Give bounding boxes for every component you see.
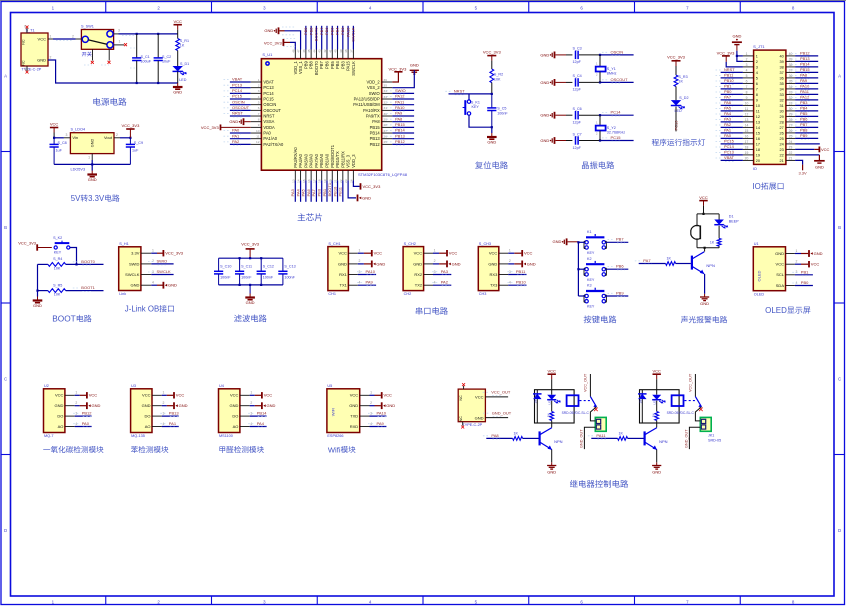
svg-text:AO: AO [145,424,151,429]
module U2 MQ-7 [44,389,65,433]
svg-text:NPN: NPN [554,439,563,444]
wire net PA3 [721,121,743,123]
svg-text:VDDA: VDDA [263,125,275,130]
svg-text:6: 6 [746,79,748,83]
svg-text:13: 13 [745,118,749,122]
svg-text:PA4: PA4 [295,188,300,196]
svg-text:PB9: PB9 [616,290,624,295]
svg-text:DO: DO [57,414,63,419]
svg-text:S_D1: S_D1 [180,62,189,66]
svg-text:4: 4 [358,281,360,285]
svg-text:U3: U3 [131,384,136,388]
svg-text:20: 20 [756,159,760,163]
svg-text:GND: GND [487,140,496,145]
svg-text:10uF: 10uF [162,59,171,63]
svg-text:D1: D1 [729,215,734,219]
wire net OSCOUT [230,109,251,111]
wire net PC15 [230,98,251,100]
wire net PB8 [310,26,312,50]
svg-text:GND_OUT: GND_OUT [492,410,512,415]
svg-text:GND: GND [229,119,238,124]
svg-text:GND: GND [88,177,97,182]
resistor base 1K [513,437,523,441]
junction [599,139,601,141]
power port VCC at U2 pin1 [75,394,80,396]
svg-text:24: 24 [779,142,783,146]
wire net PB9 [795,137,818,139]
svg-text:6: 6 [756,82,758,86]
svg-text:PC15: PC15 [263,97,274,102]
wire net OSCIN [600,54,634,56]
svg-text:35: 35 [779,82,783,86]
wire net PA4 [250,426,267,428]
ground GND [704,294,706,297]
svg-text:PB0: PB0 [724,89,732,94]
svg-text:SWIO: SWIO [395,88,406,93]
svg-text:10K: 10K [494,77,501,81]
svg-text:C: C [4,377,7,382]
svg-text:PB13: PB13 [395,133,406,138]
wire net PB14 [250,415,267,417]
wire net PB6 [795,121,818,123]
wire net PB0 [321,180,323,201]
svg-text:GND: GND [173,90,182,95]
connector S_T1 TYPE-C-2P [21,33,48,66]
caption 主芯片 [298,213,306,221]
svg-text:VCC_3V3: VCC_3V3 [165,251,184,256]
caption 复位电路 [475,161,483,169]
key S_K1 KEY [468,94,470,100]
svg-text:LDO5V3: LDO5V3 [71,167,86,171]
capacitor S_C13 100nF [282,258,284,271]
svg-text:12pF: 12pF [573,88,582,92]
ground GND at U2 pin2 [75,405,80,407]
dashed link [580,400,593,402]
svg-text:SDA: SDA [776,283,785,288]
svg-text:BOOT: BOOT [52,315,76,324]
svg-text:2: 2 [250,401,252,405]
svg-text:PA3: PA3 [724,117,731,122]
transistor NPN relay [643,431,645,445]
wire GND_OUT [584,427,595,449]
junction [599,54,601,56]
svg-text:1: 1 [88,156,90,160]
caption 苯检测模块 [131,446,138,453]
svg-text:AO: AO [58,424,64,429]
svg-text:OSCOUT: OSCOUT [263,108,281,113]
svg-text:OSCOUT: OSCOUT [232,105,250,110]
caption 电源电路 [93,98,100,106]
wire net PB7 [578,241,585,243]
svg-text:VCC_OUT: VCC_OUT [583,373,587,392]
svg-text:VCC: VCC [524,251,533,256]
svg-text:12: 12 [745,112,749,116]
svg-text:VSS_1: VSS_1 [298,60,303,73]
wire net PB9 [578,295,585,297]
capacitor S_C7 12pF [566,140,572,142]
wire contact to terminal [590,407,596,421]
svg-text:PA8: PA8 [372,119,380,124]
svg-text:STM32F103C8T6_LQFP48: STM32F103C8T6_LQFP48 [358,172,408,177]
module U5 ESP8266 [327,389,360,433]
wire net BOOT0 [315,26,317,50]
relay switch contact [694,374,696,397]
svg-text:VCC: VCC [489,251,498,256]
svg-text:PC15: PC15 [724,139,734,144]
svg-text:VCC_3V3: VCC_3V3 [201,125,220,130]
svg-text:VDD_2: VDD_2 [366,80,380,85]
svg-text:PA7: PA7 [643,258,651,263]
svg-text:OSCIN: OSCIN [611,49,624,54]
svg-text:2: 2 [370,401,372,405]
wire net PB6 [326,26,328,50]
svg-text:LED: LED [653,398,657,405]
svg-text:2: 2 [746,57,748,61]
wire net PC14 [600,114,634,116]
svg-text:PA0: PA0 [82,421,90,426]
svg-text:GND: GND [179,403,188,408]
svg-text:NRST: NRST [454,88,465,93]
svg-text:21: 21 [789,156,793,160]
svg-text:VCC: VCC [821,147,830,152]
svg-text:23: 23 [779,148,783,152]
wire net PB0 [795,285,813,287]
wire emitter to GND [704,274,706,294]
svg-text:LED: LED [675,109,683,113]
wire net PB4 [337,26,339,50]
svg-text:100nF: 100nF [284,275,295,279]
regulator S_LDO4 LDO5V3 [70,133,114,154]
svg-text:PB7: PB7 [319,27,324,35]
svg-text:PC14: PC14 [263,91,274,96]
resistor base 1K [618,437,628,441]
svg-text:35: 35 [384,83,388,87]
svg-text:1: 1 [50,35,52,39]
svg-text:S_C12: S_C12 [263,265,274,269]
wire net PB8 [795,132,818,134]
svg-text:1: 1 [119,40,121,44]
ground GND [656,462,658,465]
svg-text:NRST: NRST [232,111,243,116]
svg-text:Vout: Vout [104,135,113,140]
ground GND [37,297,39,301]
svg-text:12pF: 12pF [573,146,582,150]
wire net SWIO [151,263,173,265]
svg-text:15: 15 [756,131,760,135]
svg-text:MS1100: MS1100 [219,434,233,438]
wire base input [639,263,666,265]
LED S_D1 [177,51,179,67]
svg-text:ESP8266: ESP8266 [327,434,343,438]
svg-text:PA11: PA11 [596,433,606,438]
ground GND at U3 pin2 [162,405,167,407]
transistor Q1 NPN [704,248,706,252]
ground GND [491,127,493,133]
svg-text:GND: GND [362,195,371,200]
svg-text:37: 37 [779,71,783,75]
svg-text:SWCLK: SWCLK [351,27,356,42]
svg-text:34: 34 [779,87,783,91]
caption 甲醛检测模块 [219,446,225,453]
diode flyback 1N4148 [536,390,538,394]
svg-text:VCC: VCC [142,393,151,398]
wire net PB11 [721,77,743,79]
ground GND at H1.4 [151,284,157,286]
junction [136,82,138,84]
svg-text:U5: U5 [327,384,332,388]
svg-text:6: 6 [24,25,26,29]
svg-text:PB6: PB6 [324,27,329,35]
wire net PA8 [392,121,414,123]
svg-text:2: 2 [162,401,164,405]
connector S_CH2 [403,247,424,291]
svg-text:VCC: VCC [89,393,98,398]
svg-text:TX1: TX1 [340,283,348,288]
wire net PB1 [326,180,328,201]
LED relay indicator [551,390,553,395]
svg-text:KEY: KEY [587,251,595,255]
connector S_CH3 [478,247,499,291]
svg-text:PA9: PA9 [366,280,374,285]
svg-text:2: 2 [796,260,798,264]
svg-text:PB4: PB4 [335,27,340,35]
svg-text:GND: GND [131,283,140,288]
svg-text:RXD: RXD [350,424,359,429]
svg-text:CH1: CH1 [328,292,336,296]
svg-text:S_C2: S_C2 [162,55,171,59]
svg-text:PB11: PB11 [516,269,526,274]
svg-text:1: 1 [746,52,748,56]
svg-text:44: 44 [312,49,316,53]
junction [599,114,601,116]
svg-text:14: 14 [756,126,760,130]
svg-text:6: 6 [258,106,260,110]
svg-text:33: 33 [779,93,783,97]
svg-text:K3: K3 [587,284,592,288]
wire net OSCOUT [600,81,634,83]
connector S_H1 J-Link [119,247,141,291]
svg-text:GND: GND [413,261,422,266]
svg-text:1: 1 [358,249,360,253]
svg-text:S_C13: S_C13 [284,265,295,269]
wire net PB7 [321,26,323,50]
svg-text:PA0: PA0 [263,131,271,136]
power port VCC at U5 pin1 [370,394,375,396]
wire net PC14 [721,148,743,150]
svg-text:PB14: PB14 [257,410,268,415]
svg-text:VCC: VCC [384,393,393,398]
svg-text:PA2: PA2 [441,280,449,285]
svg-text:GND: GND [700,301,709,306]
svg-text:41: 41 [328,49,332,53]
ground GND at VSS_3 [348,180,356,198]
svg-text:RX1: RX1 [339,272,348,277]
wire net PA9 [370,426,387,428]
svg-text:PA4/A0: PA4/A0 [298,153,303,167]
svg-text:KEY: KEY [587,278,595,282]
wire bottom node [697,247,719,249]
svg-text:PB15: PB15 [800,67,810,72]
svg-text:PB4: PB4 [800,106,808,111]
svg-text:10: 10 [756,104,760,108]
svg-text:39: 39 [779,60,783,64]
svg-text:PB15: PB15 [395,122,406,127]
junction [157,33,159,35]
svg-text:PB9: PB9 [303,27,308,35]
svg-text:Wifi: Wifi [328,445,341,454]
svg-text:PB13: PB13 [169,410,180,415]
svg-text:PC13: PC13 [232,82,243,87]
svg-text:PC13: PC13 [673,120,678,131]
wire GND to pin1 [737,55,743,57]
wire net PA3 [433,274,451,276]
ground GND [551,462,553,465]
svg-text:12pF: 12pF [573,60,582,64]
wire net PA12 [392,98,414,100]
svg-text:VCC: VCC [338,251,347,256]
svg-text:PA6: PA6 [724,100,731,105]
svg-text:GND: GND [264,28,273,33]
terminal JK green [595,417,606,431]
svg-text:5: 5 [746,74,748,78]
svg-text:PA5: PA5 [301,188,306,196]
svg-text:3: 3 [509,270,511,274]
svg-text:GND: GND [540,52,549,57]
svg-text:JK1: JK1 [708,434,714,438]
ground GND at U5 pin2 [370,405,375,407]
svg-text:PA0: PA0 [232,128,240,133]
svg-text:VCC_3V3: VCC_3V3 [363,184,382,189]
svg-text:PB0: PB0 [317,188,322,196]
svg-text:S_R5: S_R5 [53,283,62,287]
power port VCC at U4 pin1 [250,394,255,396]
svg-text:VCC: VCC [264,393,273,398]
connector TYPE-C-2P output [458,389,485,422]
svg-text:PB6: PB6 [616,264,624,269]
svg-text:3.3V: 3.3V [88,194,105,203]
capacitor S_C9 1uF [129,138,131,144]
svg-text:PA6: PA6 [306,188,311,196]
svg-text:14: 14 [745,123,749,127]
power port VCC at S_CH1 pin1 [358,252,364,254]
svg-text:NPN: NPN [706,263,715,268]
svg-text:PA9: PA9 [800,78,807,83]
svg-text:4: 4 [756,71,758,75]
svg-text:VCC: VCC [475,394,484,399]
wire net PA11 [392,104,414,106]
svg-text:GND: GND [540,138,549,143]
svg-text:100uF: 100uF [141,59,152,63]
svg-text:PB9: PB9 [303,60,308,68]
svg-text:C: C [838,377,841,382]
svg-text:PB3: PB3 [800,100,807,105]
svg-text:GND: GND [540,80,549,85]
wire net PB1 [721,88,743,90]
svg-text:21: 21 [779,159,783,163]
svg-text:PA1: PA1 [232,133,240,138]
svg-text:PA10: PA10 [800,84,810,89]
svg-text:18: 18 [756,148,760,152]
wire net PB3 [795,104,818,106]
svg-text:PB7: PB7 [800,122,807,127]
resistor S_R4 10K [48,263,66,267]
svg-text:GND_OUT: GND_OUT [684,429,688,448]
svg-text:PA15: PA15 [345,27,350,37]
svg-text:36: 36 [384,78,388,82]
svg-text:SWCLK: SWCLK [125,272,140,277]
svg-text:PA10: PA10 [366,269,376,274]
wire header pin24 [795,143,820,145]
svg-text:KEY: KEY [587,305,595,309]
svg-text:VCC: VCC [547,368,556,373]
svg-text:PB1: PB1 [801,269,809,274]
svg-text:2: 2 [50,56,52,60]
capacitor S_C3 12pF [566,54,572,56]
svg-text:PB10: PB10 [724,78,734,83]
svg-text:VCC_3V3: VCC_3V3 [667,55,686,60]
wire net PA11 [795,93,818,95]
svg-text:GND: GND [410,62,419,67]
svg-text:GND: GND [732,34,741,39]
svg-text:DO: DO [232,414,238,419]
svg-text:S_C5: S_C5 [497,107,506,111]
svg-text:PB0: PB0 [801,280,809,285]
svg-text:GND: GND [547,469,556,474]
transistor NPN relay [538,431,540,445]
svg-text:8: 8 [746,90,748,94]
svg-text:37: 37 [349,49,353,53]
ground GND at header pin22 [795,154,819,156]
power port VCC_3V3 at VDD_3 [353,180,359,186]
svg-text:S_Y1: S_Y1 [607,67,616,71]
wire emitter to GND [656,450,658,463]
svg-text:U1: U1 [754,242,759,246]
svg-text:PB11: PB11 [338,186,343,196]
svg-text:S_C7: S_C7 [573,132,582,136]
svg-text:2: 2 [434,259,436,263]
relay switch contact [589,374,591,397]
svg-text:PB5: PB5 [800,111,807,116]
svg-text:PA8: PA8 [800,73,807,78]
svg-text:VCC_OUT: VCC_OUT [491,389,511,394]
svg-text:PA3/RX/A0: PA3/RX/A0 [293,147,298,168]
wire net PB10 [337,180,339,201]
svg-text:Vin: Vin [72,135,78,140]
svg-text:PC14: PC14 [232,88,243,93]
caption 声光报警电路 [681,316,688,323]
wire net PB6 [578,268,585,270]
wire net PA10 [392,109,414,111]
svg-text:PA10: PA10 [377,410,387,415]
svg-text:36: 36 [779,76,783,80]
svg-text:1K: 1K [547,414,551,418]
svg-text:PB15: PB15 [370,125,381,130]
svg-text:9: 9 [746,96,748,100]
svg-text:S_R4: S_R4 [53,257,62,261]
svg-text:BOOT0: BOOT0 [81,259,95,264]
wire contact to terminal [695,407,701,421]
svg-text:47: 47 [297,49,301,53]
svg-text:IO: IO [752,182,760,191]
wire net NRST [230,115,251,117]
svg-text:AO: AO [233,424,239,429]
svg-text:VDD_1: VDD_1 [293,60,298,74]
svg-text:VSS_3: VSS_3 [346,154,351,167]
resistor S_R2 10K [491,61,493,69]
svg-text:GND: GND [527,261,536,266]
svg-text:VCC: VCC [38,37,47,42]
svg-text:PB8: PB8 [308,27,313,35]
